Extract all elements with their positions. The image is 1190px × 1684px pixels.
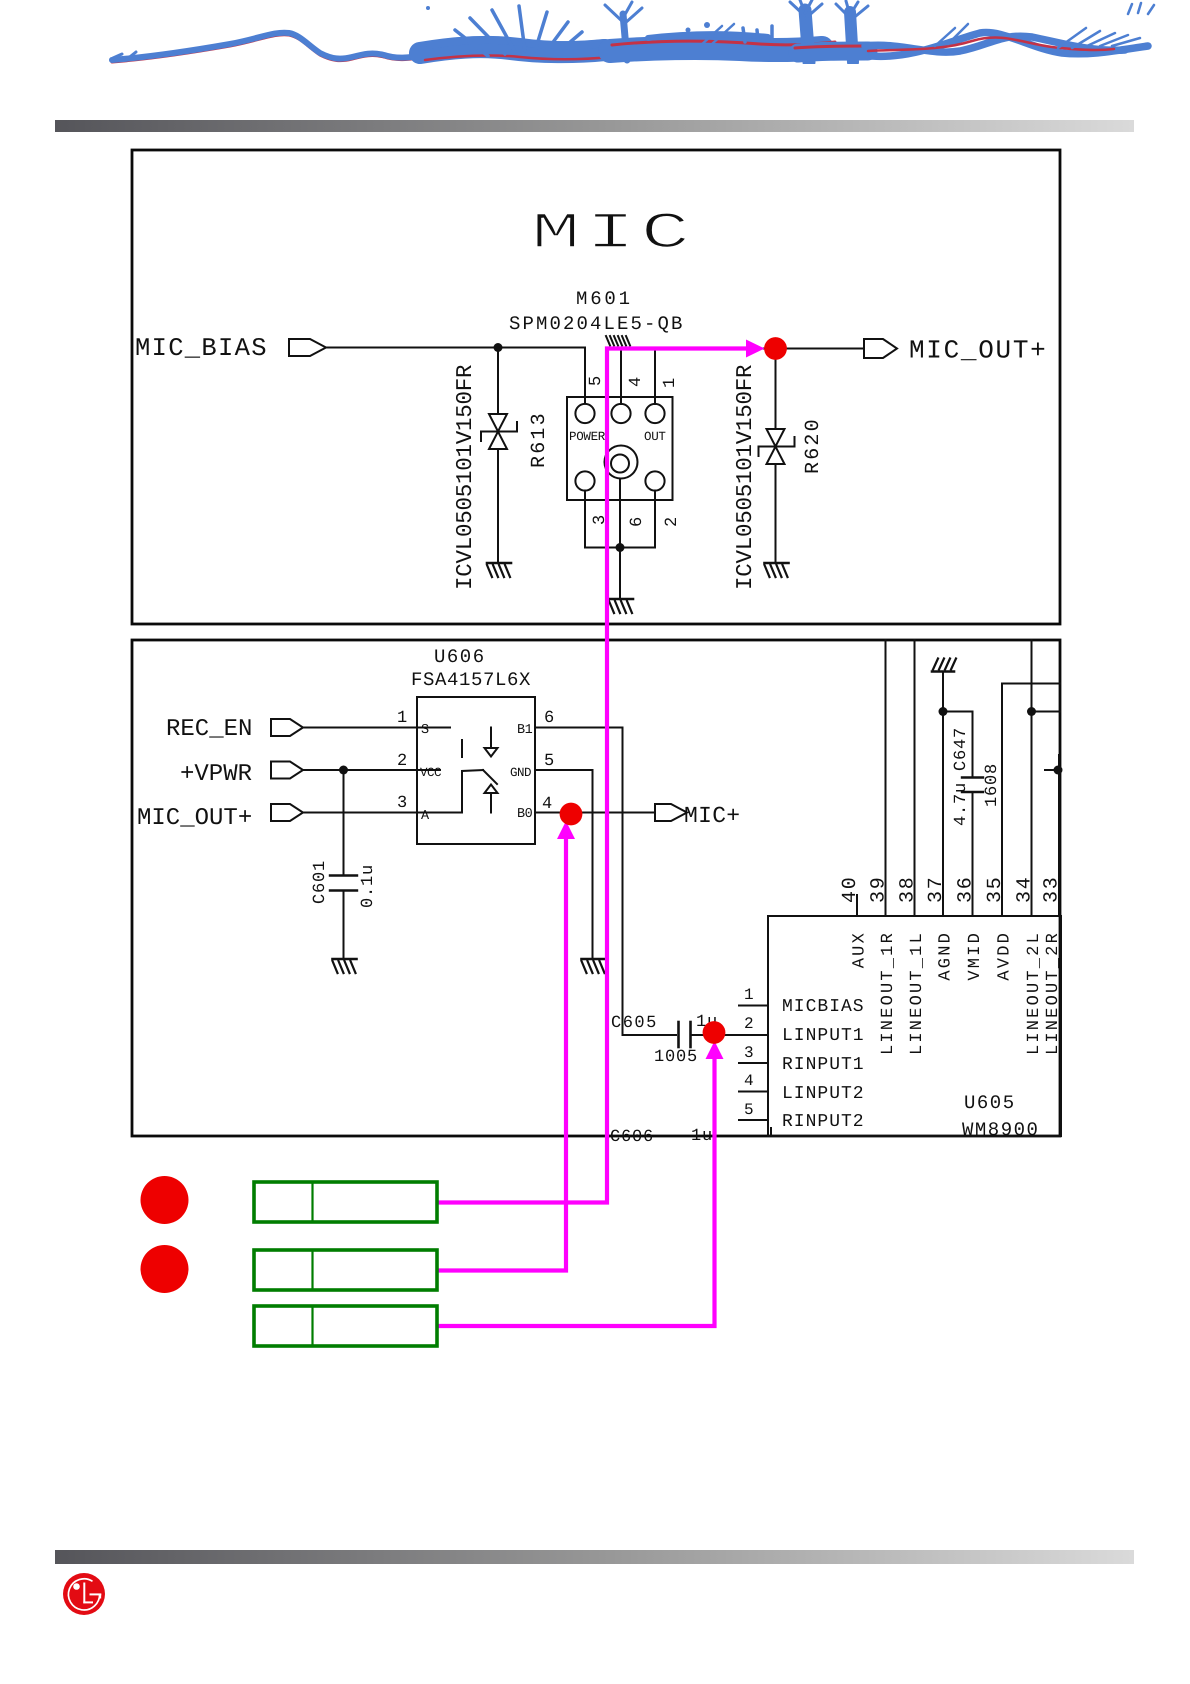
wire C647 to pin 36 VMID xyxy=(972,792,974,916)
wire junction 34 branch xyxy=(1032,711,1061,713)
svg-text:6: 6 xyxy=(544,709,554,728)
svg-text:2: 2 xyxy=(744,1015,754,1033)
switch symbol inside U606 xyxy=(462,728,498,813)
svg-text:34: 34 xyxy=(1014,875,1037,903)
pin 1 stub MICBIAS xyxy=(739,1005,768,1007)
svg-text:+VPWR: +VPWR xyxy=(180,761,252,788)
svg-text:C606: C606 xyxy=(610,1128,654,1147)
svg-text:LINPUT1: LINPUT1 xyxy=(782,1026,865,1046)
wire MIC_OUT+ to pin3 xyxy=(303,812,462,814)
node junction pin33 xyxy=(1054,766,1063,775)
wire pin2 down xyxy=(620,491,655,548)
section 2 frame xyxy=(132,640,1060,1136)
port REC_EN xyxy=(271,719,303,736)
legend box 2 divider xyxy=(311,1250,313,1290)
svg-text:1: 1 xyxy=(661,378,680,388)
svg-text:33: 33 xyxy=(1041,875,1064,903)
wire B0 pin4 to MIC+ xyxy=(535,812,655,814)
svg-text:B0: B0 xyxy=(517,807,533,822)
arrowhead callout 2 xyxy=(557,821,575,839)
legend box 2 xyxy=(254,1250,437,1290)
small dashes above band xyxy=(743,26,772,42)
svg-text:3: 3 xyxy=(397,794,407,813)
bullet marker 2 xyxy=(141,1245,189,1293)
arrowhead callout 3 xyxy=(706,1041,724,1059)
OVERLAY magenta + callouts xyxy=(141,337,787,1346)
svg-text:REC_EN: REC_EN xyxy=(166,716,252,743)
svg-text:MIC_OUT+: MIC_OUT+ xyxy=(137,805,252,832)
svg-text:LINEOUT_1R: LINEOUT_1R xyxy=(879,931,898,1055)
tree trunk at 625 xyxy=(623,14,627,60)
ground below C601 xyxy=(333,959,357,973)
svg-text:4.7u C647: 4.7u C647 xyxy=(952,727,971,826)
M601 pad 5 xyxy=(575,404,594,423)
wire junction to C601 xyxy=(343,770,345,874)
svg-text:U606: U606 xyxy=(434,646,486,668)
wire pin 33 LINEOUT_2R xyxy=(1058,755,1060,916)
svg-text:RINPUT1: RINPUT1 xyxy=(782,1055,865,1075)
svg-text:R613: R613 xyxy=(528,411,551,468)
svg-text:OUT: OUT xyxy=(644,430,666,444)
svg-text:A: A xyxy=(421,809,430,824)
svg-text:MICBIAS: MICBIAS xyxy=(782,997,865,1017)
ground below M601 xyxy=(609,599,633,613)
M601 pad 1 xyxy=(645,404,664,423)
svg-text:0.1u: 0.1u xyxy=(359,864,378,908)
right spikes xyxy=(700,24,1140,48)
svg-text:S: S xyxy=(421,723,429,738)
resistor R620 (varistor ICVL0505101V150FR) xyxy=(759,360,795,563)
wire junction to R613 xyxy=(497,348,499,415)
svg-text:4: 4 xyxy=(744,1072,754,1090)
svg-text:U605: U605 xyxy=(964,1092,1016,1114)
wire callout 3 magenta path to LINPUT1 node xyxy=(438,1058,715,1326)
wire C601 to ground xyxy=(343,891,345,960)
stub C606 wire xyxy=(770,1128,772,1136)
ground below pin5 wire xyxy=(582,959,606,973)
svg-text:3: 3 xyxy=(744,1044,754,1062)
wire pin6 down to ground xyxy=(619,479,621,599)
header gray bar xyxy=(55,120,1134,132)
capacitor C647 xyxy=(962,778,983,793)
ground below R613 xyxy=(487,563,511,577)
svg-text:VCC: VCC xyxy=(420,766,441,780)
legend box 1 divider xyxy=(311,1182,313,1222)
svg-text:5: 5 xyxy=(587,376,606,386)
node junction AGND/C647 xyxy=(939,707,948,716)
svg-text:36: 36 xyxy=(955,875,978,903)
wire REC_EN to pin1 xyxy=(303,727,450,729)
node test point B0/MIC+ (red) xyxy=(560,803,583,826)
port MIC_BIAS xyxy=(289,339,326,356)
resistor R613 (varistor ICVL0505101V150FR) xyxy=(481,414,517,449)
svg-text:40: 40 xyxy=(839,875,862,903)
wire pin1 up and right to MIC_OUT+ xyxy=(655,349,864,405)
svg-text:4: 4 xyxy=(542,795,552,814)
svg-text:AUX: AUX xyxy=(851,931,870,968)
svg-text:M601: M601 xyxy=(576,288,633,310)
wire pin 38 LINEOUT_1L xyxy=(914,640,916,916)
LG logo xyxy=(63,1573,105,1615)
capacitor C605 xyxy=(679,1022,691,1047)
svg-text:ICVL0505101V150FR: ICVL0505101V150FR xyxy=(452,365,478,590)
legend box 1 xyxy=(254,1182,437,1222)
node junction MIC_BIAS/R613 xyxy=(494,343,503,352)
wire pin 34 LINEOUT_2L xyxy=(1031,640,1033,916)
svg-text:39: 39 xyxy=(868,875,891,903)
node test point MIC_OUT+ (red) xyxy=(764,337,787,360)
wire +VPWR to pin2 xyxy=(303,769,440,771)
port MIC+ xyxy=(655,804,687,821)
band 610-830 xyxy=(610,48,822,51)
svg-text:C605: C605 xyxy=(611,1014,658,1033)
svg-text:POWER: POWER xyxy=(569,430,606,444)
node junction +VPWR/C601 xyxy=(339,766,348,775)
svg-text:2: 2 xyxy=(397,752,407,771)
node junction below M601 xyxy=(616,543,625,552)
footer gray bar xyxy=(55,1550,1134,1564)
svg-text:LINEOUT_2L: LINEOUT_2L xyxy=(1025,931,1044,1055)
svg-text:5: 5 xyxy=(744,1101,754,1119)
wire callout 1 magenta path to MIC_OUT+ node xyxy=(438,349,747,1203)
svg-text:37: 37 xyxy=(925,875,948,903)
wire pin 35 AVDD xyxy=(1002,684,1060,917)
svg-text:LINEOUT_1L: LINEOUT_1L xyxy=(908,931,927,1055)
svg-text:FSA4157L6X: FSA4157L6X xyxy=(411,669,531,691)
big trunk 1 xyxy=(805,10,809,62)
port MIC_OUT+ sec2 xyxy=(271,804,303,821)
wire junction to C647 xyxy=(943,712,973,777)
wire junction 33 branch xyxy=(1045,769,1060,771)
pin 3 stub RINPUT1 xyxy=(739,1062,768,1064)
SECTION2 xyxy=(137,640,1064,1147)
svg-text:R620: R620 xyxy=(802,417,825,474)
wire MIC_BIAS to M601 pin5 xyxy=(326,348,585,405)
svg-text:LINEOUT_2R: LINEOUT_2R xyxy=(1044,931,1063,1055)
wire pin4 up xyxy=(620,348,622,404)
svg-text:35: 35 xyxy=(984,875,1007,903)
op-amp U606 body xyxy=(417,697,535,844)
svg-text:1005: 1005 xyxy=(654,1048,698,1067)
big trunk 2 xyxy=(850,12,853,62)
pin 4 stub LINPUT2 xyxy=(739,1091,768,1093)
pin 40 stub AUX xyxy=(856,895,858,916)
svg-text:WM8900: WM8900 xyxy=(962,1119,1039,1141)
pin 5 stub RINPUT2 xyxy=(739,1119,768,1121)
IC U605 body xyxy=(768,916,1061,1136)
bullet marker 1 xyxy=(141,1176,189,1224)
wire callout 2 magenta path to MIC+ node xyxy=(438,838,566,1271)
wire R613 to ground xyxy=(497,449,499,563)
wire pin 39 LINEOUT_1R xyxy=(885,640,887,916)
left thin rise + mountain xyxy=(112,35,426,62)
SECTION1 xyxy=(135,206,1047,613)
legend box 3 xyxy=(254,1306,437,1346)
svg-text:VMID: VMID xyxy=(966,931,985,981)
M601 pad 2 xyxy=(645,471,664,490)
wire pin3 down xyxy=(585,491,620,548)
legend box 3 divider xyxy=(311,1306,313,1346)
M601 pad 4 xyxy=(611,404,630,423)
right crossing waves xyxy=(865,36,1125,52)
band between trunks xyxy=(798,51,868,53)
svg-text:4: 4 xyxy=(627,377,646,387)
svg-text:MIC: MIC xyxy=(531,206,695,263)
svg-text:38: 38 xyxy=(897,875,920,903)
node junction pin34 xyxy=(1027,707,1036,716)
svg-text:2: 2 xyxy=(663,517,682,527)
wire C605 to LINPUT1 pin2 xyxy=(691,1034,769,1036)
svg-text:AGND: AGND xyxy=(937,931,956,981)
svg-text:1: 1 xyxy=(397,709,407,728)
wire ground to pin 37 AGND xyxy=(942,672,944,917)
M601 center pad outer xyxy=(605,446,638,479)
svg-text:1608: 1608 xyxy=(983,763,1002,807)
M601 center pad inner xyxy=(611,455,629,473)
ground below R620 xyxy=(765,563,789,577)
microphone M601 body xyxy=(567,397,673,500)
M601 pad 3 xyxy=(575,471,594,490)
arrowhead callout 1 xyxy=(746,340,765,358)
top right dashes xyxy=(1128,3,1154,14)
band 420-620 xyxy=(420,47,605,53)
hatch shield mark above pin4 xyxy=(606,336,630,346)
knot spikes at 520 xyxy=(455,6,582,56)
svg-text:1: 1 xyxy=(744,986,754,1004)
svg-text:LINPUT2: LINPUT2 xyxy=(782,1084,865,1104)
svg-text:C601: C601 xyxy=(311,860,330,904)
svg-text:MIC_BIAS: MIC_BIAS xyxy=(135,334,268,363)
svg-text:MIC+: MIC+ xyxy=(684,803,740,829)
small specks xyxy=(704,22,710,28)
wire GND pin5 to ground xyxy=(535,770,593,959)
svg-text:AVDD: AVDD xyxy=(996,931,1015,981)
wire B1 pin6 to C605 xyxy=(535,728,676,1036)
MIC section frame xyxy=(132,150,1060,624)
svg-text:1u: 1u xyxy=(691,1127,713,1146)
svg-text:RINPUT2: RINPUT2 xyxy=(782,1112,865,1132)
port MIC_OUT+ xyxy=(864,339,897,358)
svg-text:MIC_OUT+: MIC_OUT+ xyxy=(909,336,1047,366)
ground above pin 37 xyxy=(932,659,956,672)
port +VPWR xyxy=(271,762,303,779)
svg-text:GND: GND xyxy=(510,766,531,780)
capacitor C601 xyxy=(330,876,357,891)
svg-text:B1: B1 xyxy=(517,723,533,738)
svg-text:SPM0204LE5-QB: SPM0204LE5-QB xyxy=(509,313,685,335)
node test point LINPUT1 (red) xyxy=(703,1021,726,1044)
svg-text:ICVL0505101V150FR: ICVL0505101V150FR xyxy=(732,365,758,590)
svg-text:5: 5 xyxy=(544,752,554,771)
svg-text:6: 6 xyxy=(628,517,647,527)
